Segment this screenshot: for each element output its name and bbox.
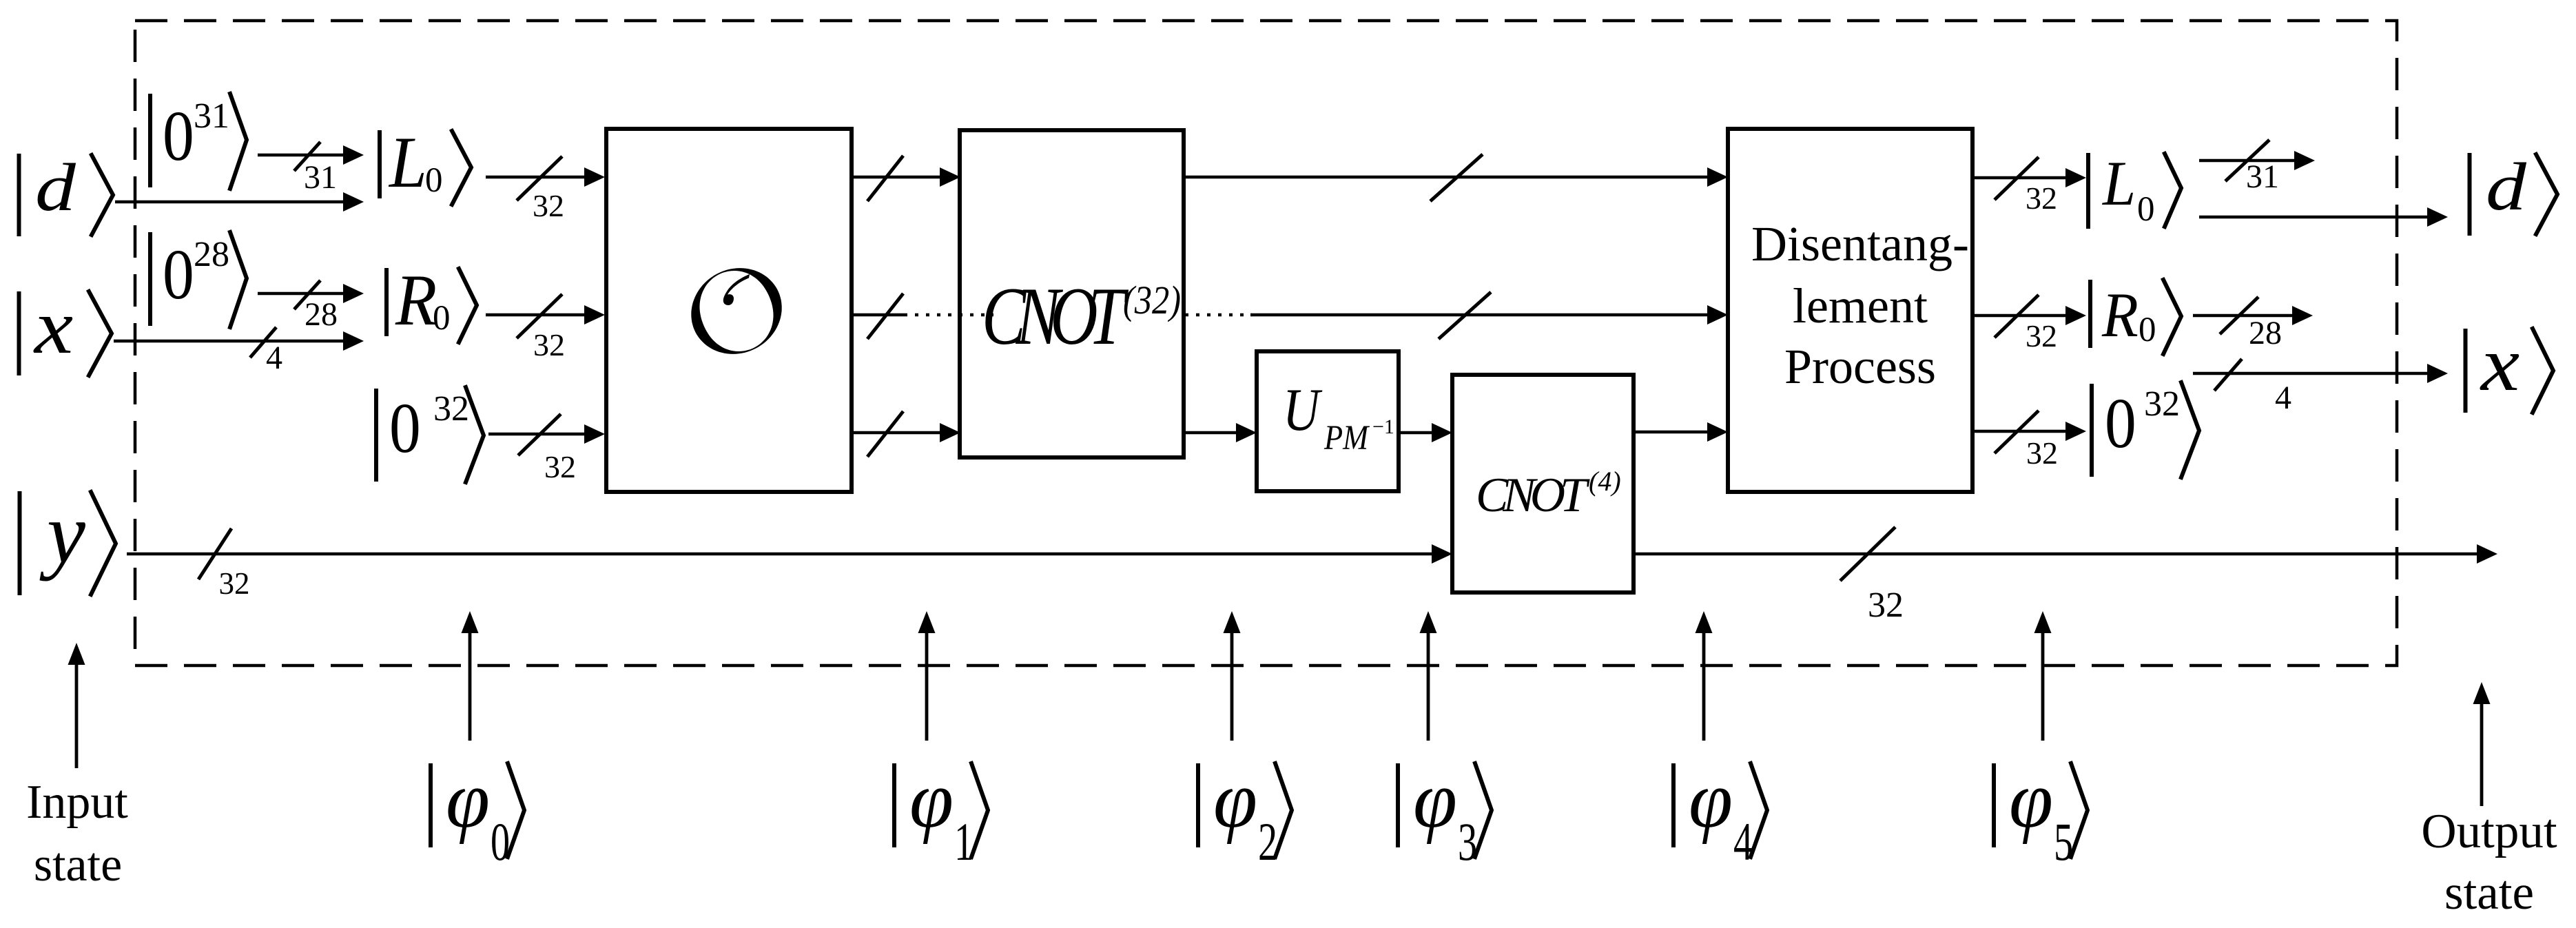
bus slash (250, 327, 276, 358)
svg-text:0: 0 (389, 389, 421, 468)
wire |y> to CNOT4 with slash 32 (127, 544, 1452, 564)
bus slash (867, 293, 903, 339)
state marker |phi_5> (1994, 611, 2088, 872)
svg-text:(4): (4) (1589, 466, 1621, 497)
bus slash (198, 528, 231, 579)
svg-text:4: 4 (266, 340, 282, 376)
script O label (691, 268, 781, 354)
svg-text:φ: φ (446, 755, 490, 845)
svg-text:R: R (395, 260, 437, 341)
bus slash (867, 411, 903, 457)
svg-text:x: x (33, 283, 73, 369)
svg-text:U: U (1283, 376, 1323, 443)
svg-text:2: 2 (1258, 812, 1277, 872)
bus slash (517, 156, 562, 200)
svg-text:0: 0 (2137, 190, 2155, 229)
bus slash (1995, 295, 2039, 338)
svg-text:1: 1 (954, 812, 973, 872)
register ket |R0> (387, 260, 477, 342)
wire |d> to |L0> (115, 192, 364, 212)
svg-text:32: 32 (2144, 384, 2180, 424)
box CNOT^(4) (1452, 375, 1634, 592)
wire Disentanglement to |R0> out with slash 32 (1972, 306, 2086, 325)
bus slash (518, 414, 561, 455)
state marker |phi_2> (1198, 611, 1292, 872)
svg-text:32: 32 (2026, 435, 2058, 471)
svg-text:Process: Process (1784, 339, 1936, 394)
svg-text:31: 31 (2246, 158, 2279, 195)
svg-text:(32): (32) (1123, 278, 1181, 322)
output ket |x> (2466, 320, 2554, 413)
bus slash (2214, 359, 2242, 391)
svg-text:28: 28 (2249, 315, 2282, 351)
state marker |phi_4> (1673, 611, 1767, 872)
bus slash (294, 142, 320, 171)
state marker |phi_0> (431, 611, 524, 872)
bus slash (2225, 140, 2269, 181)
svg-text:5: 5 (2054, 812, 2073, 872)
svg-text:CNOT: CNOT (1476, 468, 1590, 522)
bus slash (1995, 411, 2039, 453)
dotted wire out of CNOT32 row2 (1185, 313, 1252, 317)
wire O to CNOT32 row1 with slash (852, 167, 960, 187)
state marker |phi_3> (1398, 611, 1492, 872)
svg-text:CNOT: CNOT (982, 270, 1129, 362)
svg-text:32: 32 (1868, 586, 1904, 625)
svg-text:31: 31 (304, 159, 337, 196)
wire Disentanglement to |L0> out with slash 32 (1972, 168, 2086, 187)
wire |L0> to output |d> (2199, 207, 2448, 227)
input ket |x> (19, 283, 112, 375)
register ket |L0> (380, 123, 471, 205)
svg-text:lement: lement (1793, 278, 1928, 333)
svg-text:0: 0 (2105, 384, 2136, 464)
svg-text:32: 32 (533, 327, 565, 362)
svg-text:φ: φ (1213, 755, 1257, 845)
ancilla ket |0^32> (376, 387, 484, 482)
svg-text:31: 31 (194, 96, 229, 136)
input ket |d> (19, 149, 114, 236)
bus slash (294, 280, 320, 309)
discard wire slash 28 (2193, 306, 2313, 325)
wire O row2 solid stub with slash (852, 313, 904, 317)
svg-text:x: x (2480, 320, 2520, 406)
output ket |0^32> (2092, 382, 2199, 477)
svg-text:0: 0 (491, 812, 510, 872)
svg-text:28: 28 (305, 296, 338, 333)
wire row2 to Disentanglement with slash (1250, 305, 1728, 324)
wire |0^32> to O with slash 32 (488, 424, 605, 444)
wire CNOT32 to Disentanglement row1 with slash (1184, 167, 1728, 187)
svg-text:−1: −1 (1372, 415, 1394, 438)
svg-text:L: L (2101, 149, 2136, 219)
input ket |y> (20, 486, 116, 595)
svg-text:φ: φ (909, 755, 954, 845)
label Input state (68, 643, 85, 768)
svg-text:32: 32 (533, 188, 564, 223)
dotted wire into CNOT32 (904, 313, 993, 317)
ancilla ket |0^28> (150, 232, 247, 327)
svg-text:32: 32 (433, 389, 469, 429)
dashed boundary box (135, 21, 2397, 666)
svg-text:32: 32 (2026, 181, 2057, 216)
wire |R0> to O with slash 32 (486, 305, 605, 324)
svg-text:y: y (39, 486, 85, 581)
bus slash (2220, 297, 2258, 334)
output ket |R0> (2090, 280, 2181, 354)
svg-text:L: L (388, 123, 427, 203)
svg-text:3: 3 (1458, 812, 1477, 872)
output ket |L0> (2088, 149, 2181, 229)
wire |x> to |R0> with bus slash 4 (114, 331, 364, 351)
wire U_PM to CNOT4 (1399, 423, 1452, 442)
svg-text:0: 0 (163, 236, 194, 315)
box Disentanglement Process (1728, 129, 1972, 492)
svg-text:28: 28 (194, 235, 229, 274)
svg-text:32: 32 (544, 449, 576, 484)
discard wire slash 31 (2199, 151, 2315, 170)
svg-text:state: state (2444, 866, 2534, 920)
svg-text:d: d (35, 149, 76, 225)
bus slash (517, 294, 562, 338)
svg-text:4: 4 (1733, 812, 1753, 872)
svg-text:32: 32 (219, 566, 250, 601)
svg-text:0: 0 (163, 97, 194, 176)
ancilla ket |0^31> (150, 94, 247, 189)
svg-text:φ: φ (2009, 755, 2053, 845)
wire CNOT32 to U_PM row3 (1184, 423, 1257, 442)
wire |0^31> to |L0> with bus slash 31 (258, 145, 364, 165)
box CNOT^(32) (960, 130, 1184, 457)
svg-text:Input: Input (26, 776, 128, 829)
state marker |phi_1> (894, 611, 988, 872)
box U_PM^-1 (1257, 351, 1399, 491)
svg-text:state: state (34, 838, 122, 891)
svg-text:32: 32 (2026, 318, 2057, 353)
wire Disentanglement to |0^32> out with slash 32 (1972, 422, 2086, 441)
bus slash (1430, 154, 1483, 201)
wire |R0> to output |x> with slash 4 (2193, 364, 2448, 383)
svg-text:4: 4 (2275, 380, 2291, 416)
oracle box U_O (606, 129, 852, 492)
wire |0^28> to |R0> with bus slash 28 (258, 284, 364, 303)
svg-text:Disentang-: Disentang- (1751, 216, 1969, 271)
label Output state (2473, 682, 2491, 806)
wire |L0> to O with slash 32 (486, 167, 605, 187)
svg-text:R: R (2101, 280, 2139, 351)
bus slash (1995, 157, 2039, 200)
bus slash (867, 156, 903, 201)
bus slash (1439, 292, 1491, 339)
bus slash (1840, 527, 1895, 581)
svg-text:d: d (2486, 149, 2527, 225)
output ket |d> (2470, 149, 2558, 236)
svg-text:φ: φ (1689, 755, 1733, 845)
svg-text:0: 0 (433, 299, 451, 338)
svg-text:0: 0 (425, 161, 443, 200)
svg-text:PM: PM (1323, 418, 1370, 457)
wire CNOT4 to Disentanglement row3 (1634, 422, 1728, 442)
wire O to CNOT32 row3 with slash (852, 423, 960, 442)
svg-text:Output: Output (2421, 805, 2557, 858)
wire CNOT4 to output with slash 32 (1634, 544, 2497, 564)
svg-text:φ: φ (1413, 755, 1457, 845)
svg-text:0: 0 (2139, 311, 2156, 349)
